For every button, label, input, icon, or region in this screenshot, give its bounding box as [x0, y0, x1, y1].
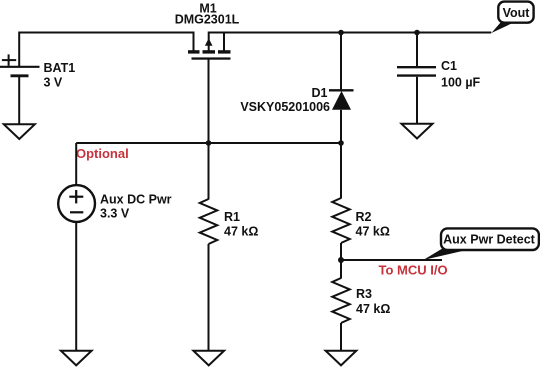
node junction dot detect — [338, 257, 344, 263]
svg-text:C1: C1 — [441, 59, 457, 73]
svg-text:R1: R1 — [224, 210, 240, 224]
svg-text:47 kΩ: 47 kΩ — [224, 225, 258, 239]
svg-text:R2: R2 — [356, 210, 372, 224]
wire aux source to ground — [75, 222, 77, 351]
svg-text:47 kΩ: 47 kΩ — [356, 302, 390, 316]
wire optional rail to R2 — [340, 143, 342, 199]
svg-text:Aux DC Pwr: Aux DC Pwr — [100, 193, 172, 207]
wire M1 gate down to R1 — [208, 60, 210, 200]
svg-text:47 kΩ: 47 kΩ — [356, 225, 390, 239]
node junction dot D1 anode tap — [338, 140, 344, 146]
node junction dot gate tap — [206, 140, 212, 146]
source Aux DC Pwr — [58, 185, 95, 222]
svg-text:D1: D1 — [312, 86, 328, 100]
svg-text:DMG2301L: DMG2301L — [175, 13, 240, 27]
wire Vout rail from M1 drain side — [209, 32, 492, 34]
wire R1 to ground — [208, 244, 210, 351]
wire battery positive to M1 source — [19, 33, 193, 68]
svg-text:BAT1: BAT1 — [44, 61, 76, 75]
ground aux source — [61, 351, 92, 366]
svg-text:R3: R3 — [356, 287, 372, 301]
resistor R1 — [200, 199, 218, 244]
resistor R2 — [332, 198, 350, 243]
svg-text:100 µF: 100 µF — [441, 76, 481, 90]
transistor M1 — [188, 32, 231, 60]
svg-text:Optional: Optional — [76, 146, 129, 161]
svg-text:To MCU I/O: To MCU I/O — [379, 263, 448, 278]
svg-text:3.3 V: 3.3 V — [100, 207, 130, 221]
svg-text:Aux Pwr Detect: Aux Pwr Detect — [443, 233, 536, 247]
capacitor C1 — [397, 33, 436, 126]
callout Vout — [491, 2, 533, 33]
wire battery negative to ground — [18, 77, 20, 126]
wire optional rail — [76, 142, 341, 144]
node junction dot D1 tap — [338, 30, 344, 36]
node junction dot C1 tap — [414, 30, 420, 36]
diode D1 — [329, 33, 354, 144]
ground C1 — [402, 124, 433, 139]
svg-text:VSKY05201006: VSKY05201006 — [240, 100, 330, 114]
resistor R3 — [332, 278, 350, 323]
ground R1 — [193, 351, 224, 366]
ground battery — [4, 124, 35, 139]
svg-text:Vout: Vout — [503, 6, 531, 20]
wire optional rail to aux source — [75, 143, 77, 186]
wire detect node to R3 — [340, 260, 342, 279]
battery BAT1 — [0, 54, 40, 75]
svg-text:3 V: 3 V — [44, 76, 63, 90]
wire R2 to junction — [340, 243, 342, 260]
wire R3 to ground — [340, 323, 342, 351]
wire detect node to callout — [341, 259, 442, 261]
ground R3 — [326, 351, 357, 366]
callout Aux Pwr Detect — [423, 228, 539, 260]
